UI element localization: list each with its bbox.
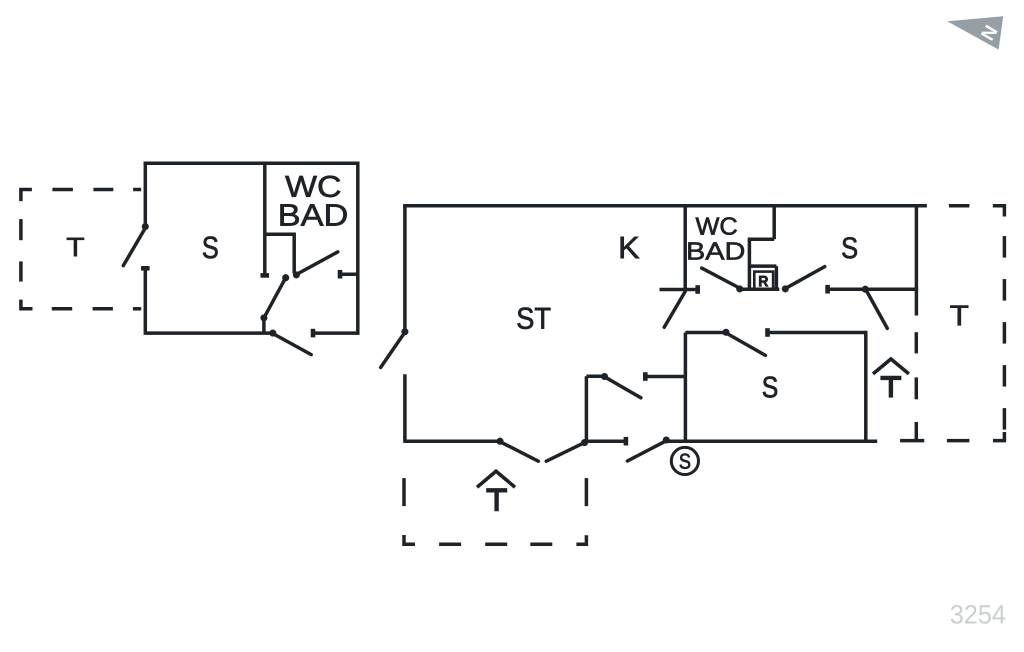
wall S room bottom left vertical (right building)	[684, 333, 688, 442]
terrace dash top	[133, 188, 141, 192]
door jamb pad (hall stub left end)	[338, 270, 343, 279]
door jamb pad (left wall, bottom of opening)	[141, 266, 150, 271]
terrace dash bottom	[947, 439, 970, 443]
terrace dash left	[915, 332, 919, 353]
terrace dash bottom	[52, 307, 72, 311]
door jamb pad (hall stub left end)	[643, 372, 648, 381]
compass letter N	[981, 25, 998, 41]
door hinge dot (left wall door)	[402, 329, 408, 335]
wall bottom main segment (right building)	[666, 439, 877, 443]
door hinge dot (WC BAD door)	[737, 286, 743, 292]
door hinge dot (S room top door)	[782, 286, 788, 292]
wall left lower (left building)	[144, 268, 148, 335]
room label WC (right building)	[696, 217, 737, 234]
terrace dash top	[949, 204, 970, 208]
wall left lower (right building)	[403, 374, 407, 443]
door leaf (left wall door, swings to terrace)	[123, 228, 145, 266]
door hinge dot (ST terrace door right)	[581, 439, 587, 445]
door hinge dot (bottom door)	[270, 330, 276, 336]
appliance box R	[754, 272, 773, 290]
terrace dash left	[19, 219, 23, 240]
terrace arrow label T (bottom terrace)	[486, 490, 507, 511]
terrace dash top	[93, 188, 113, 192]
wall K/WC divider (right building)	[683, 204, 687, 289]
terrace dash right	[585, 478, 589, 506]
door leaf (WC BAD door, swings up-right)	[298, 252, 338, 274]
wall left upper (right building)	[403, 204, 407, 332]
appliance label R	[759, 276, 768, 287]
door leaf (hall door, two dots)	[264, 278, 286, 318]
door hinge dot (S room bottom door)	[723, 329, 729, 335]
wall bottom ST segment (right building)	[405, 439, 500, 443]
door hinge dot (terrace corridor door)	[862, 286, 868, 292]
wall top (right building)	[403, 204, 927, 208]
terrace dashed corner bottom-right	[993, 432, 1004, 441]
door leaf (hall door, swings down-right)	[606, 378, 641, 398]
terrace dash left	[915, 377, 919, 399]
terrace dash top	[52, 188, 73, 192]
room label S (right building top room)	[842, 237, 857, 258]
door jamb pad (S room top wall)	[765, 328, 770, 337]
door leaf (S room top door, swings up-right)	[787, 267, 825, 288]
wall bottom small segment (right building)	[586, 439, 626, 443]
wall interior WC/BAD left (left building)	[263, 163, 267, 275]
door jamb pad (end of WC wall)	[261, 273, 270, 278]
wall hall/ST divider vertical (right building)	[585, 376, 589, 441]
door leaf (K door, swings down-left)	[664, 292, 685, 328]
room label BAD (left building)	[281, 204, 347, 225]
door hinge dot (WC BAD door)	[293, 272, 299, 278]
wall closet left vertical (right building)	[748, 239, 752, 289]
terrace dash right	[1003, 408, 1007, 430]
door leaf (ST terrace door right)	[546, 443, 583, 461]
compass north arrow	[947, 16, 1003, 49]
wall right (right building)	[915, 204, 919, 315]
wall closet bottom (right building)	[740, 288, 780, 292]
terrace dash bottom	[133, 307, 141, 311]
wall bottom right segment (left building)	[313, 331, 360, 335]
terrace dash bottom	[439, 542, 461, 546]
terrace dash left	[402, 478, 406, 506]
wall closet right vertical (right building)	[775, 266, 779, 289]
door leaf (left wall door, swings outside)	[381, 334, 404, 368]
plan number 3254	[951, 605, 1005, 624]
wall stub hall right (left building)	[340, 272, 358, 276]
door hinge dot (hall door bottom)	[261, 315, 267, 321]
terrace dash right	[1003, 279, 1007, 301]
wall stub vertical above bottom wall (left building)	[262, 318, 266, 333]
terrace dashed corner top-left	[21, 190, 32, 202]
door hinge dot (ST terrace door left)	[497, 438, 503, 444]
wall S room bottom top-right segment (right building)	[768, 331, 866, 335]
wall S room bottom right vertical (right building)	[864, 331, 868, 441]
wall top (left building)	[144, 161, 360, 165]
door leaf (terrace corridor door, swings down-right)	[867, 291, 888, 328]
door leaf (WC BAD door, swings up-left)	[702, 268, 739, 287]
room label S (left building)	[203, 237, 218, 259]
terrace dash right	[1003, 236, 1007, 258]
door jamb pad (bottom wall opening left)	[624, 437, 629, 446]
compass triangle	[947, 16, 1003, 49]
wall S room bottom top-left segment (right building)	[685, 331, 726, 335]
terrace arrow chevron (bottom terrace)	[477, 471, 515, 487]
wall hall/S-room horizontal (right building)	[828, 287, 919, 291]
door jamb pad (bottom wall)	[311, 329, 316, 338]
room label WC (left building)	[285, 176, 340, 197]
terrace dash left	[19, 261, 23, 281]
terrace dash bottom	[93, 307, 113, 311]
wall tick K door (right building)	[660, 288, 698, 292]
wall interior jog vertical (left building)	[292, 234, 296, 273]
wall closet right upper vertical (right building)	[772, 204, 776, 239]
terrace dashed corner bottom-right	[576, 535, 586, 544]
door leaf (bottom door, swings outside)	[274, 334, 311, 354]
terrace dashed corner top-right	[993, 206, 1005, 217]
door hinge dot (left wall door)	[142, 223, 148, 229]
terrace dashed corner bottom-left	[404, 535, 415, 544]
room label T (right terrace)	[950, 306, 968, 326]
door leaf (ST terrace door left)	[502, 442, 539, 461]
terrace dash left	[915, 422, 919, 439]
wall stub hall (right building)	[645, 375, 685, 379]
terrace dash right	[1003, 365, 1007, 387]
wall left upper (left building)	[144, 162, 148, 227]
door jamb pad (K door tick right end)	[695, 285, 700, 294]
sauna circle letter S	[680, 454, 690, 469]
door hinge dot (hall door)	[601, 373, 607, 379]
wall closet jog horizontal (right building)	[748, 237, 775, 241]
door leaf (S room bottom door, swings down-right)	[728, 334, 766, 355]
wall tick at divider top (right building)	[586, 375, 604, 379]
room label ST (right building)	[517, 308, 550, 330]
terrace dash right	[1003, 322, 1007, 344]
wall closet shelf horizontal (right building)	[749, 264, 776, 268]
door hinge dot (hall door top)	[283, 275, 289, 281]
terrace arrow label T (right terrace)	[880, 378, 901, 398]
terrace dash bottom	[485, 542, 507, 546]
room label BAD (right building)	[688, 243, 744, 260]
room label K (right building)	[621, 237, 640, 258]
wall right (left building)	[356, 162, 360, 335]
wall bottom left segment (left building)	[145, 331, 272, 335]
terrace dash bottom	[530, 542, 552, 546]
door jamb pad (hall/S wall left end)	[825, 285, 830, 294]
wall interior jog horizontal (left building)	[265, 232, 296, 236]
sauna circle symbol	[671, 447, 698, 474]
room label T (left terrace)	[67, 238, 84, 256]
terrace dashed corner bottom-left	[21, 300, 33, 309]
room label S (right building bottom room)	[763, 377, 777, 398]
terrace arrow chevron (right terrace)	[873, 359, 909, 374]
door hinge dot (bottom exit door)	[663, 437, 669, 443]
door leaf (bottom exit door, swings outside)	[627, 442, 664, 461]
terrace dash bottom-left with junction	[900, 439, 924, 443]
